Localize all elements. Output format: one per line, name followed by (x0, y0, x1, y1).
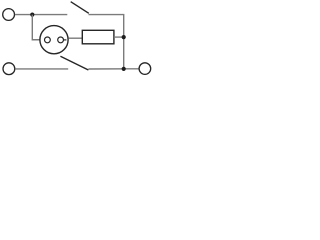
socket X1 outer circle (40, 26, 68, 54)
wire bottom right horizontal (88, 68, 139, 70)
wire from J1 down to socket (32, 15, 44, 40)
resistor R1 (82, 30, 114, 44)
terminal T1 (top-left) (3, 9, 15, 21)
wire bottom-left horizontal (15, 68, 68, 70)
wire socket to resistor (69, 37, 83, 39)
wire resistor to node J2 (114, 36, 124, 38)
wire from S1 to right corner and down (89, 15, 124, 69)
socket X1 left pin circle (45, 37, 51, 43)
switch S2 blade (open, bottom) (60, 56, 88, 70)
node junction J1 (30, 13, 34, 17)
node junction J2 (122, 35, 126, 39)
socket X1 right pin circle (58, 37, 64, 43)
switch S1 blade (open, top) (71, 2, 89, 14)
terminal T3 (bottom-right) (139, 63, 151, 75)
terminal T2 (bottom-left) (3, 63, 15, 75)
node junction J3 (122, 67, 126, 71)
socket X1 right pin tick (64, 39, 67, 41)
wire top-left horizontal (15, 14, 67, 16)
